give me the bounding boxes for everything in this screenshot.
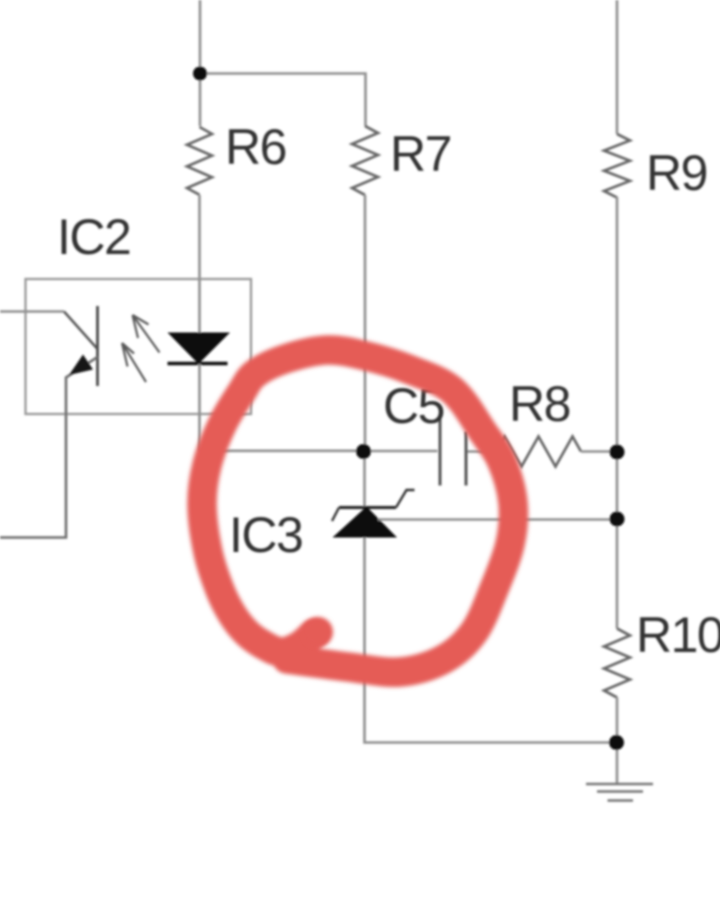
wire IC2 led anode <box>198 279 201 334</box>
node B junction dot <box>356 444 371 459</box>
node E junction dot <box>609 735 624 750</box>
svg-text:R8: R8 <box>509 376 570 432</box>
transistor collector lead <box>64 312 98 350</box>
wire node D to R10 <box>616 519 619 629</box>
wire R7 down to node B <box>364 195 367 451</box>
resistor R7 <box>352 126 378 195</box>
ground stem <box>616 743 619 784</box>
IC3 cathode bar <box>339 506 396 509</box>
red marker circle annotation around IC3 <box>202 350 514 672</box>
wire supply rail into R6 <box>199 0 202 126</box>
svg-text:IC3: IC3 <box>229 507 302 563</box>
svg-text:R10: R10 <box>636 607 720 663</box>
wire R9 to node C <box>616 197 619 452</box>
resistor R9 <box>604 134 630 198</box>
ground bar 2 <box>597 790 643 792</box>
wire R10 to ground node <box>616 697 619 742</box>
op-to box IC2 <box>26 279 252 414</box>
wire C5 to R8 <box>468 450 496 453</box>
svg-text:R7: R7 <box>390 126 451 182</box>
transistor bar <box>96 306 99 386</box>
red marker stroke end blob <box>303 617 333 647</box>
emitter arrow head <box>69 355 93 376</box>
light arrow 1 <box>133 315 160 353</box>
wire R6 to IC2 box <box>198 195 201 279</box>
svg-text:IC2: IC2 <box>57 209 130 265</box>
svg-text:R6: R6 <box>225 119 286 175</box>
wire IC3 anode to ground node <box>365 538 617 743</box>
wire R8 to node C <box>581 450 617 453</box>
capacitor C5 left plate <box>439 417 442 486</box>
wire IC3 reference to node D <box>378 518 617 521</box>
wire LED to node B <box>200 449 364 452</box>
IC3 bar left tick <box>332 508 339 522</box>
svg-text:R9: R9 <box>646 145 707 201</box>
light arrow 2 <box>122 343 146 382</box>
resistor R6 <box>187 127 212 195</box>
resistor R10 <box>604 629 630 698</box>
wire node B down to IC3 <box>363 451 366 507</box>
LED triangle of IC2 <box>168 333 231 365</box>
node D junction dot <box>610 512 625 527</box>
wire top feed of R9 <box>616 0 619 134</box>
ground bar 3 <box>608 799 634 801</box>
resistor R8 <box>496 437 582 467</box>
LED cathode bar <box>168 362 228 365</box>
IC3 triangle <box>333 507 398 538</box>
wire node B to C5 <box>364 450 438 453</box>
transistor emitter lead and wire out <box>0 357 98 538</box>
node C junction dot <box>610 445 625 460</box>
wire node C to node D <box>616 452 619 519</box>
wire into IC2 phototransistor <box>0 310 64 313</box>
wire LED cathode down <box>198 364 201 451</box>
node A junction dot <box>193 67 207 81</box>
ground bar 1 <box>586 783 653 786</box>
capacitor C5 right plate <box>465 432 468 486</box>
IC3 bar right tick <box>396 490 415 508</box>
wire branch to R7 <box>200 74 366 127</box>
